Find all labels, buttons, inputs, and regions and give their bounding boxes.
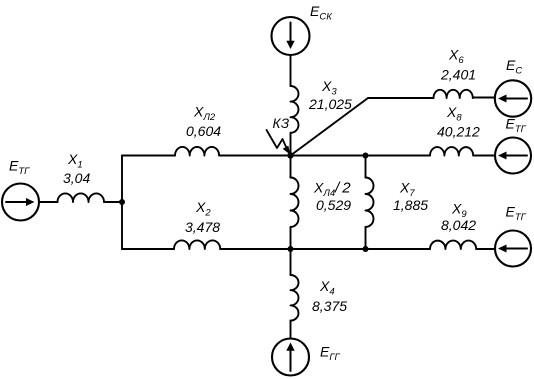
svg-text:40,212: 40,212	[437, 124, 480, 140]
svg-text:8,375: 8,375	[312, 298, 347, 314]
svg-text:X1: X1	[67, 151, 83, 171]
svg-text:X2: X2	[195, 199, 211, 219]
svg-text:3,478: 3,478	[185, 219, 220, 235]
svg-text:3,04: 3,04	[63, 170, 90, 186]
svg-text:EТГ: EТГ	[506, 116, 527, 136]
svg-text:21,025: 21,025	[308, 96, 352, 112]
svg-text:0,604: 0,604	[186, 123, 221, 139]
svg-text:0,529: 0,529	[316, 197, 351, 213]
svg-text:X8: X8	[446, 104, 462, 124]
svg-text:EСК: EСК	[310, 3, 333, 23]
svg-text:EС: EС	[506, 57, 522, 77]
svg-text:8,042: 8,042	[441, 217, 476, 233]
svg-text:КЗ: КЗ	[273, 116, 290, 131]
svg-text:X4: X4	[319, 278, 335, 298]
svg-text:2,401: 2,401	[440, 67, 476, 83]
svg-text:X6: X6	[448, 47, 464, 67]
svg-text:EТГ: EТГ	[9, 158, 30, 178]
svg-text:X3: X3	[321, 78, 337, 98]
svg-text:EТГ: EТГ	[506, 204, 527, 224]
svg-text:XЛ2: XЛ2	[193, 104, 216, 124]
svg-text:EГГ: EГГ	[320, 344, 341, 364]
svg-text:1,885: 1,885	[393, 197, 428, 213]
